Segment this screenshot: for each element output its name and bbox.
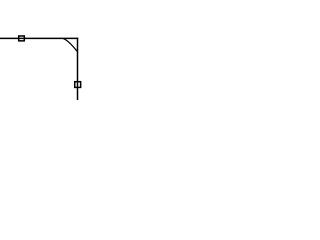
terminal square T1 on horizontal wire [19, 36, 25, 41]
corner arc (bend radius) [64, 39, 77, 51]
wire: vertical segment from corner to bottom edge [77, 38, 79, 100]
wire: horizontal segment from left edge to corner [0, 37, 78, 39]
terminal square T2 on vertical wire [75, 82, 81, 88]
